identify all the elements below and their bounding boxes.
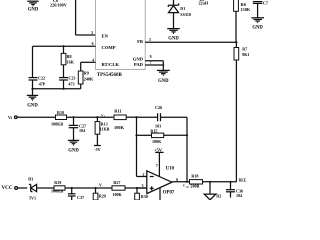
svg-text:D3: D3 bbox=[28, 177, 33, 182]
ground (IC pad) bbox=[157, 70, 170, 83]
svg-text:C23: C23 bbox=[68, 75, 75, 80]
svg-text:GND: GND bbox=[133, 56, 144, 61]
capacitor C26 bbox=[155, 105, 187, 128]
svg-text:+5V: +5V bbox=[154, 147, 163, 152]
svg-text:3: 3 bbox=[91, 31, 93, 35]
op IC U1 TPS54560B box bbox=[96, 0, 146, 78]
ground (D1) bbox=[167, 29, 180, 42]
svg-text:OP07: OP07 bbox=[163, 191, 175, 196]
capacitor C22 bbox=[29, 75, 46, 88]
svg-text:5V1: 5V1 bbox=[29, 195, 36, 200]
node junction C27 tap bbox=[72, 116, 74, 118]
wire inverting feedback left vertical bbox=[136, 117, 138, 176]
svg-text:R11: R11 bbox=[114, 109, 121, 114]
svg-text:6: 6 bbox=[176, 178, 178, 182]
ground (C7) bbox=[251, 18, 264, 31]
svg-text:200R: 200R bbox=[190, 184, 199, 189]
svg-text:7: 7 bbox=[156, 164, 158, 168]
svg-text:473: 473 bbox=[68, 82, 74, 87]
svg-text:PAD: PAD bbox=[134, 62, 144, 67]
resistor R19 bbox=[51, 180, 96, 194]
svg-text:R15: R15 bbox=[150, 129, 157, 134]
capacitor C6 value label bbox=[50, 0, 67, 8]
svg-text:-: - bbox=[102, 184, 103, 188]
ground (top-left) bbox=[27, 1, 39, 12]
svg-text:5: 5 bbox=[149, 38, 151, 42]
svg-text:TPS54560B: TPS54560B bbox=[97, 73, 123, 78]
svg-text:out: out bbox=[186, 185, 190, 188]
svg-text:100K: 100K bbox=[112, 192, 122, 197]
resistor R7 bbox=[234, 42, 249, 60]
resistor R30 bbox=[135, 187, 148, 200]
wire op-amp V- pin down bbox=[159, 188, 161, 200]
svg-text:2: 2 bbox=[142, 173, 144, 177]
resistor R10 bbox=[51, 110, 113, 127]
svg-text:9: 9 bbox=[150, 55, 152, 59]
svg-text:COMP: COMP bbox=[102, 45, 116, 50]
svg-text:R29: R29 bbox=[99, 193, 106, 198]
svg-text:U10: U10 bbox=[166, 167, 175, 172]
ground (C27) bbox=[68, 140, 80, 153]
resistor R13 bbox=[95, 117, 110, 145]
svg-text:D1: D1 bbox=[180, 6, 185, 11]
svg-text:R30: R30 bbox=[141, 194, 148, 199]
capacitor C36 bbox=[226, 181, 243, 199]
svg-text:226/100V: 226/100V bbox=[50, 3, 67, 8]
svg-text:GND: GND bbox=[28, 8, 39, 13]
svg-text:R19: R19 bbox=[54, 180, 61, 185]
wire FB net bbox=[145, 41, 237, 43]
resistor R9 bbox=[78, 71, 94, 89]
svg-text:EN: EN bbox=[102, 33, 109, 38]
svg-text:100KB: 100KB bbox=[51, 122, 63, 127]
svg-text:9K1: 9K1 bbox=[242, 52, 249, 57]
svg-text:7: 7 bbox=[150, 61, 152, 65]
wire C26 branch bbox=[137, 116, 158, 118]
node V1 junction bbox=[96, 113, 106, 118]
resistor R15 bbox=[135, 129, 188, 144]
svg-text:RT/CLK: RT/CLK bbox=[102, 62, 120, 67]
svg-text:130K: 130K bbox=[240, 7, 250, 12]
svg-text:GND: GND bbox=[168, 36, 179, 41]
svg-text:R18: R18 bbox=[191, 173, 198, 178]
diode D1 SS310 bbox=[168, 0, 191, 28]
svg-text:4: 4 bbox=[92, 59, 94, 63]
svg-text:R8: R8 bbox=[67, 54, 72, 59]
wire output row bbox=[172, 181, 190, 183]
terminal Vi bbox=[8, 115, 56, 120]
svg-text:6: 6 bbox=[92, 42, 94, 46]
svg-text:-5V: -5V bbox=[94, 147, 100, 152]
wire feedback to REF bbox=[235, 60, 237, 182]
svg-text:R10: R10 bbox=[57, 110, 64, 115]
zener diode D3 5V1 bbox=[28, 177, 54, 201]
capacitor C23 bbox=[59, 75, 75, 88]
node V- junction bbox=[94, 184, 103, 189]
wire EN net bbox=[76, 0, 96, 35]
op-amp U10 OP07 bbox=[147, 167, 175, 196]
node REF label bbox=[239, 179, 247, 183]
svg-text:GND: GND bbox=[252, 26, 263, 31]
svg-text:C7: C7 bbox=[263, 0, 268, 5]
svg-text:C22: C22 bbox=[38, 75, 45, 80]
power -5V bbox=[94, 146, 101, 153]
svg-text:47P: 47P bbox=[39, 82, 46, 87]
wire op-amp noninverting input (pin 3) bbox=[137, 187, 147, 189]
resistor R6 bbox=[234, 0, 251, 42]
svg-text:GND: GND bbox=[27, 104, 38, 109]
svg-text:180K: 180K bbox=[152, 139, 162, 144]
resistor R18 bbox=[190, 173, 237, 188]
ground (COMP network) bbox=[27, 89, 39, 109]
resistor R27 bbox=[96, 180, 147, 197]
svg-text:C26: C26 bbox=[155, 105, 162, 110]
svg-text:R9: R9 bbox=[84, 71, 89, 76]
svg-text:240K: 240K bbox=[84, 77, 94, 82]
diode D2 bbox=[204, 181, 221, 200]
svg-text:GND: GND bbox=[158, 79, 169, 84]
svg-text:16K: 16K bbox=[67, 59, 75, 64]
resistor R8 bbox=[61, 46, 74, 77]
svg-text:GND: GND bbox=[68, 148, 79, 153]
wire GND/PAD pin stubs bbox=[145, 61, 164, 70]
resistor R29 bbox=[93, 188, 106, 200]
svg-text:R27: R27 bbox=[113, 180, 120, 185]
svg-text:104: 104 bbox=[236, 193, 242, 198]
wire COMP net bbox=[33, 45, 96, 47]
wire feedback right vertical bbox=[186, 117, 188, 182]
svg-text:FB: FB bbox=[137, 39, 143, 44]
svg-text:3: 3 bbox=[142, 184, 144, 188]
wire C22 branch bbox=[32, 46, 34, 77]
svg-text:11KB: 11KB bbox=[100, 127, 110, 132]
terminal VCC bbox=[2, 185, 28, 191]
svg-text:SS310: SS310 bbox=[180, 12, 191, 17]
svg-text:C37: C37 bbox=[77, 195, 84, 200]
svg-text:100KB: 100KB bbox=[51, 189, 63, 194]
wire RT/CLK net bbox=[81, 62, 96, 71]
capacitor C27 bbox=[69, 117, 86, 140]
resistor R11 bbox=[114, 109, 137, 130]
wire COMP bottom rail bbox=[31, 88, 80, 90]
capacitor C7 bbox=[253, 0, 268, 17]
capacitor C37 bbox=[68, 187, 84, 200]
node A junction bbox=[135, 116, 137, 118]
svg-text:100K: 100K bbox=[114, 125, 125, 130]
wire op-amp inverting input (pin 2) bbox=[137, 176, 147, 178]
svg-text:VCC: VCC bbox=[2, 185, 13, 191]
svg-text:104: 104 bbox=[79, 128, 85, 133]
svg-text:REF,: REF, bbox=[239, 179, 247, 183]
power +5V bbox=[154, 147, 164, 176]
svg-text:L2: L2 bbox=[200, 0, 205, 2]
svg-text:D2: D2 bbox=[216, 193, 221, 198]
